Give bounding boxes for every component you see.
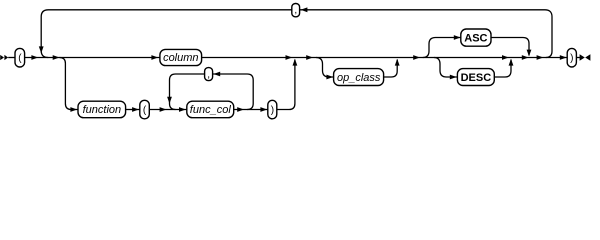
- wire inner repeat loop: [170, 74, 254, 110]
- arrow down inner loop left: [167, 97, 172, 104]
- arrow right after func_col: [237, 107, 244, 112]
- arrow right after function paren: [160, 107, 167, 112]
- svg-text:op_class: op_class: [337, 72, 381, 84]
- node func_col box: [187, 101, 234, 118]
- terminal , outer loop comma box: [292, 4, 300, 17]
- svg-text:,: ,: [207, 69, 210, 80]
- node op_class box: [334, 69, 384, 86]
- arrow right before column: [151, 55, 158, 60]
- wire after close paren: [576, 57, 579, 59]
- arrow right before loop split: [537, 55, 544, 60]
- wire function row merge up: [277, 60, 295, 110]
- arrow right before function paren: [132, 107, 139, 112]
- terminal ) function close paren box: [268, 100, 277, 119]
- wire branch down to function row: [60, 58, 79, 110]
- arrow right before function box: [70, 107, 77, 112]
- arrow left inner loop comma: [213, 72, 220, 77]
- wire main line right: [202, 57, 568, 59]
- arrow right before op_class split: [306, 55, 313, 60]
- terminal , inner loop comma box: [205, 68, 213, 81]
- wire main line middle: [25, 57, 160, 59]
- svg-text:ASC: ASC: [464, 33, 487, 45]
- keyword DESC box: [457, 69, 494, 86]
- railroad syntax diagram: [0, 0, 600, 124]
- arrow left outer loop comma: [301, 7, 308, 12]
- svg-text:,: ,: [294, 5, 297, 16]
- wire DESC branch down: [434, 58, 457, 78]
- arrow down ASC merge: [527, 50, 532, 57]
- svg-text:DESC: DESC: [461, 72, 492, 84]
- node function box: [78, 101, 126, 118]
- start marker arrows: [0, 55, 8, 60]
- arrow right after asc merge: [522, 55, 529, 60]
- wire ASC branch up: [423, 38, 461, 58]
- arrow right before function merge: [286, 55, 293, 60]
- svg-text:column: column: [163, 52, 198, 64]
- arrow right before close paren: [560, 55, 567, 60]
- end marker arrows: [580, 54, 591, 61]
- svg-text:func_col: func_col: [190, 104, 232, 116]
- arrow right before ASC split: [413, 55, 420, 60]
- arrow right before inner close paren: [260, 107, 267, 112]
- terminal ( function open paren box: [140, 100, 150, 119]
- arrow right before branch point: [53, 55, 60, 60]
- wire function row segments: [126, 109, 140, 111]
- wire main line left: [8, 57, 15, 59]
- wire ASC merge down: [491, 38, 529, 56]
- arrow up DESC merge: [509, 59, 514, 66]
- wire outer repeat loop: [41, 10, 552, 58]
- svg-text:): ): [271, 105, 274, 116]
- wire op_class merge up: [384, 60, 398, 77]
- arrow right before op_class box: [326, 75, 333, 80]
- arrow down outer loop left: [39, 46, 44, 53]
- terminal ( open paren box: [15, 48, 25, 67]
- arrow right before open paren loop join: [31, 55, 38, 60]
- arrow right before func_col: [179, 107, 186, 112]
- arrow right after desc merge: [502, 55, 509, 60]
- wire op_class branch down: [316, 58, 334, 78]
- arrow up function merge: [293, 59, 298, 66]
- svg-text:): ): [570, 53, 573, 64]
- keyword ASC box: [461, 29, 491, 46]
- node column box: [160, 49, 202, 65]
- wire DESC merge up: [494, 60, 511, 77]
- svg-text:function: function: [83, 104, 122, 116]
- arrow up op_class merge: [395, 59, 400, 66]
- arrow right before DESC box: [450, 75, 457, 80]
- terminal ) close paren box: [567, 48, 576, 67]
- arrow right before ASC box: [454, 35, 461, 40]
